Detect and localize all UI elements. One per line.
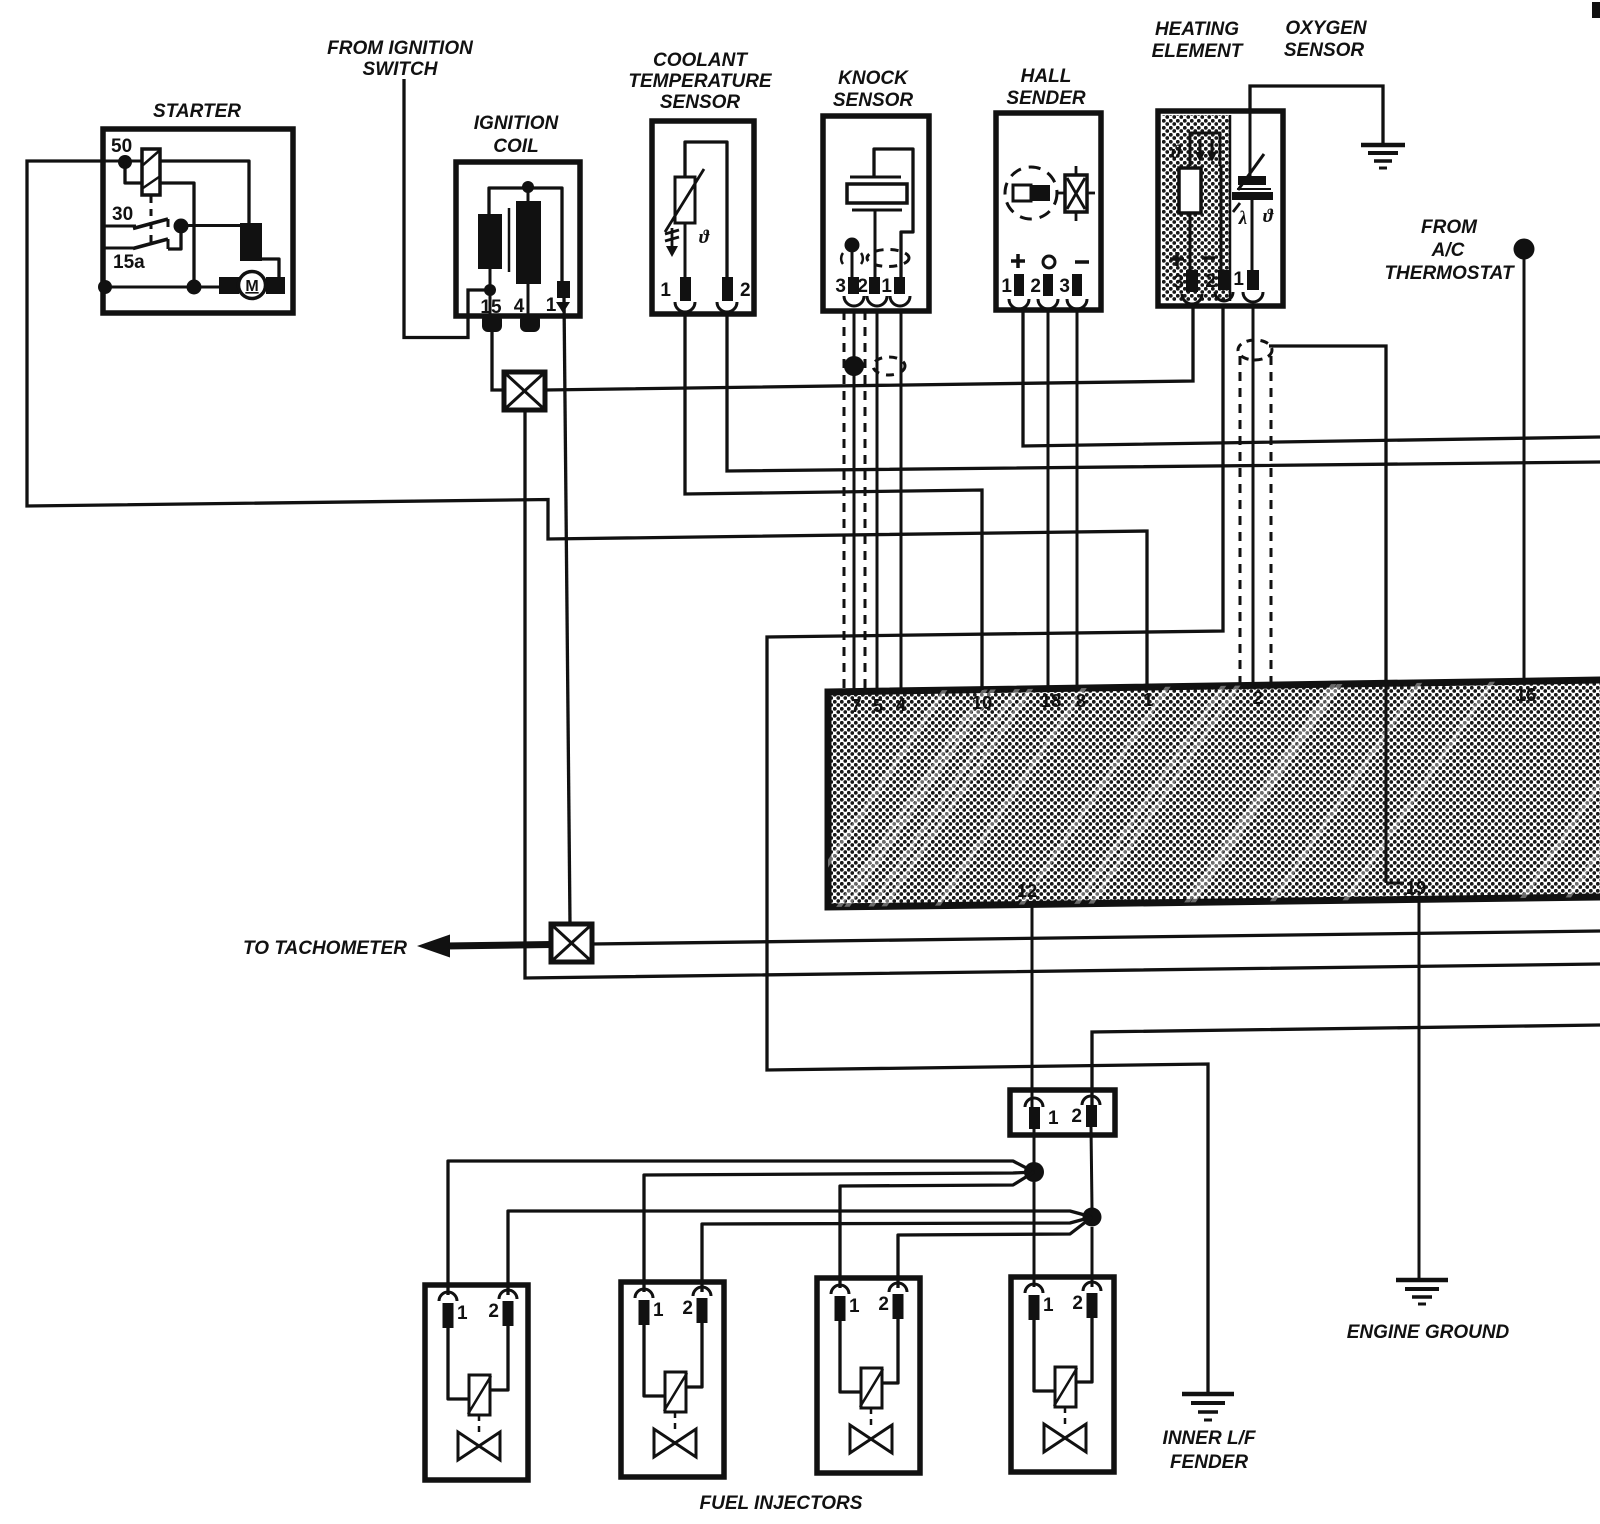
svg-text:2: 2 xyxy=(682,1298,693,1319)
wire: switch node to solenoid block xyxy=(181,224,240,227)
label HEATING ELEMENT xyxy=(1152,19,1244,62)
coil terminal 1 pin xyxy=(556,281,570,313)
wire: coil to solenoid contact xyxy=(160,161,249,223)
svg-text:KNOCK: KNOCK xyxy=(838,68,909,89)
wire: node1 to injector4 pin1 xyxy=(1033,1182,1036,1287)
svg-text:HEATING: HEATING xyxy=(1155,19,1239,40)
svg-text:TEMPERATURE: TEMPERATURE xyxy=(628,71,773,92)
hall vane rectangle xyxy=(1013,185,1050,201)
wire: block to motor xyxy=(262,259,279,277)
wire: hall O to ECU pin 18 xyxy=(1047,310,1050,689)
wire: node1 to injector2 pin1 xyxy=(644,1172,1034,1292)
connector X1 xyxy=(504,372,545,410)
coolant arrow symbol xyxy=(665,228,679,257)
label KNOCK SENSOR xyxy=(833,68,914,111)
svg-text:SWITCH: SWITCH xyxy=(363,59,439,80)
svg-text:ENGINE GROUND: ENGINE GROUND xyxy=(1347,1322,1510,1343)
svg-text:1: 1 xyxy=(1233,269,1244,290)
svg-text:COIL: COIL xyxy=(493,136,538,157)
svg-text:2: 2 xyxy=(1071,1106,1082,1127)
svg-text:8: 8 xyxy=(1076,690,1086,711)
svg-text:4: 4 xyxy=(514,296,525,317)
starter bottom bus xyxy=(104,286,221,289)
page corner mark xyxy=(1592,2,1600,18)
wire: oxygen shield to ECU pin 19 xyxy=(1269,346,1386,684)
fuel injector 3 xyxy=(817,1278,920,1473)
wire: secondary to terminal 4 xyxy=(527,284,530,315)
svg-text:1: 1 xyxy=(849,1296,860,1317)
node injector feed 2 xyxy=(1083,1208,1102,1227)
node from A/C thermostat xyxy=(1514,239,1535,260)
heater polarity + - xyxy=(1170,252,1215,266)
node starter 50 xyxy=(118,155,132,169)
wire: knock 3 to ECU pin 7 xyxy=(853,311,856,692)
knock element top loop xyxy=(874,149,913,277)
svg-text:ELEMENT: ELEMENT xyxy=(1152,41,1244,62)
fuel injector 1 xyxy=(425,1285,528,1480)
svg-text:THERMOSTAT: THERMOSTAT xyxy=(1384,263,1515,284)
coil primary winding xyxy=(478,188,562,281)
svg-text:FROM IGNITION: FROM IGNITION xyxy=(327,38,474,59)
svg-text:18: 18 xyxy=(1041,690,1062,711)
starter box xyxy=(103,129,293,313)
ECU control unit box xyxy=(780,645,1600,935)
svg-text:FUEL INJECTORS: FUEL INJECTORS xyxy=(700,1493,863,1514)
svg-text:FENDER: FENDER xyxy=(1170,1452,1248,1473)
svg-text:1: 1 xyxy=(1143,689,1153,710)
wire: hall - to ECU pin 8 xyxy=(1076,310,1079,688)
hall polarity symbols + O - xyxy=(1011,254,1089,268)
ground oxygen sensor xyxy=(1361,145,1405,168)
svg-text:7: 7 xyxy=(851,695,861,716)
wire: connector 1 to injector nodes xyxy=(1033,1129,1036,1163)
svg-text:50: 50 xyxy=(111,136,132,157)
svg-text:COOLANT: COOLANT xyxy=(653,50,748,71)
svg-text:3: 3 xyxy=(835,276,846,297)
fuel injector 2 xyxy=(621,1282,724,1477)
svg-text:ϑ: ϑ xyxy=(1263,206,1274,227)
wire: node1 to injector3 pin1 xyxy=(840,1172,1034,1288)
wire: node2 to injector3 pin2 xyxy=(898,1217,1092,1288)
wire: X1 to heating element + xyxy=(545,306,1193,390)
svg-text:STARTER: STARTER xyxy=(153,101,241,122)
wire: node2 to injector4 pin2 xyxy=(1091,1227,1094,1287)
svg-text:ϑ: ϑ xyxy=(699,227,710,248)
node starter bottom xyxy=(187,280,202,295)
svg-text:1: 1 xyxy=(457,1303,468,1324)
svg-text:FROM: FROM xyxy=(1421,217,1478,238)
coil secondary winding xyxy=(516,188,541,284)
svg-text:SENSOR: SENSOR xyxy=(1284,40,1365,61)
node knock shield internal xyxy=(845,238,860,253)
node coil 15 xyxy=(484,284,496,296)
injector harness connector xyxy=(1010,1090,1115,1135)
knock shield marker xyxy=(873,357,905,375)
svg-text:2: 2 xyxy=(1072,1293,1083,1314)
svg-text:IGNITION: IGNITION xyxy=(474,113,560,134)
ground inner fender xyxy=(1182,1394,1234,1420)
wire: oxygen sensor body ground xyxy=(1250,86,1383,144)
svg-text:λ: λ xyxy=(1238,208,1247,229)
ignition coil box xyxy=(456,162,580,316)
svg-text:10: 10 xyxy=(972,692,993,713)
label HALL SENDER xyxy=(1006,66,1085,109)
svg-text:12: 12 xyxy=(1017,880,1038,901)
knock pins 3 2 1 xyxy=(835,276,910,306)
svg-text:2: 2 xyxy=(878,1294,889,1315)
svg-text:SENSOR: SENSOR xyxy=(660,92,741,113)
node coil top xyxy=(522,181,534,193)
label OXYGEN SENSOR xyxy=(1284,18,1368,61)
wire: coolant 1 to ECU pin 10 xyxy=(685,314,982,690)
wire plate to pin 2 xyxy=(874,210,877,277)
starter motor M xyxy=(219,272,285,299)
wire: heater - to injectors ground path xyxy=(767,306,1223,1393)
wire loop to pin 2 xyxy=(1220,166,1223,270)
coil core line xyxy=(508,208,511,272)
wire node to pin 3 xyxy=(851,245,854,277)
starter relay coil xyxy=(104,149,160,195)
svg-text:3: 3 xyxy=(1059,276,1070,297)
wire: knock shield dashed b xyxy=(864,311,867,691)
wire: primary to terminal 15 xyxy=(489,269,492,315)
svg-text:15a: 15a xyxy=(113,252,145,273)
wire: coil 15 to connector X1 xyxy=(492,331,504,390)
wire: switch node hook xyxy=(168,226,181,249)
wire: connector 2 down xyxy=(1091,1127,1092,1208)
wire: knock 2 to ECU pin 5 xyxy=(876,311,879,691)
svg-text:5: 5 xyxy=(873,695,883,716)
wire: from ignition switch to coil 15 xyxy=(404,79,492,338)
hall pins 1 2 3 xyxy=(1001,274,1087,309)
svg-text:1: 1 xyxy=(881,276,892,297)
svg-text:ϑ: ϑ xyxy=(1171,142,1182,163)
svg-text:19: 19 xyxy=(1406,877,1427,898)
label FROM A/C THERMOSTAT xyxy=(1384,217,1515,284)
oxygen shield dashed marker xyxy=(1238,340,1272,360)
wire: X2 arrow to tachometer xyxy=(417,935,551,958)
wire: oxygen shield dashed a xyxy=(1239,356,1242,687)
svg-text:OXYGEN: OXYGEN xyxy=(1285,18,1368,39)
svg-text:3: 3 xyxy=(1173,272,1184,293)
ground engine xyxy=(1396,1280,1448,1304)
wire: oxygen shield dashed b xyxy=(1270,356,1273,686)
svg-text:2: 2 xyxy=(740,280,751,301)
coolant sensor box xyxy=(652,121,754,314)
oxygen sensor element xyxy=(1232,111,1273,270)
heater resistor xyxy=(1179,168,1201,213)
svg-text:SENSOR: SENSOR xyxy=(833,90,914,111)
heater pins 3 2 xyxy=(1173,270,1233,304)
ECU pin labels xyxy=(851,684,1536,901)
svg-text:A/C: A/C xyxy=(1431,240,1465,261)
hall IC element xyxy=(1057,166,1095,221)
coolant pins 1 2 xyxy=(660,277,750,312)
wire: node1 to injector1 pin1 xyxy=(448,1161,1034,1295)
svg-text:2: 2 xyxy=(488,1301,499,1322)
fuel injector 4 xyxy=(1011,1277,1114,1472)
knock sensor box xyxy=(823,116,929,311)
svg-text:4: 4 xyxy=(896,694,907,715)
starter switch contact 15a xyxy=(104,239,168,249)
starter switch contact 30 xyxy=(104,219,168,229)
wire: knock shield dashed a xyxy=(843,311,846,692)
svg-text:16: 16 xyxy=(1516,684,1537,705)
knock element plates xyxy=(847,177,907,210)
hall rotor dashed circle xyxy=(1005,167,1057,219)
heater loop with arrows xyxy=(1190,133,1220,166)
wire: coil lower to bottom bus xyxy=(160,183,194,287)
label COOLANT TEMPERATURE SENSOR xyxy=(628,50,773,113)
connector X2 xyxy=(551,924,592,962)
wire: node2 to injector2 pin2 xyxy=(702,1217,1092,1292)
svg-text:HALL: HALL xyxy=(1021,66,1072,87)
coolant thermistor xyxy=(665,142,727,277)
coil stud 15 xyxy=(482,314,502,332)
svg-text:SENDER: SENDER xyxy=(1006,88,1085,109)
wire resistor to pin 3 xyxy=(1189,213,1192,270)
wire thermistor to pin 1 xyxy=(684,223,687,277)
wire: ECU pin 12 to injector connector 1 xyxy=(1031,905,1034,1107)
wire: right edge to injector connector 2 xyxy=(1092,1025,1600,1105)
node injector feed 1 xyxy=(1024,1162,1044,1182)
label INNER L/F FENDER xyxy=(1163,1428,1257,1473)
svg-text:M: M xyxy=(245,278,258,295)
svg-text:30: 30 xyxy=(112,204,133,225)
wire: oxygen sensor 1 to ECU pin 2 xyxy=(1252,306,1255,687)
svg-text:1: 1 xyxy=(653,1300,664,1321)
label FROM IGNITION SWITCH xyxy=(327,38,474,80)
oxygen lambda theta symbols xyxy=(1238,206,1274,229)
svg-text:TO TACHOMETER: TO TACHOMETER xyxy=(243,938,407,959)
wire: X1 down and right (to right edge) xyxy=(525,410,1600,978)
svg-text:1: 1 xyxy=(1048,1108,1059,1129)
svg-text:2: 2 xyxy=(1205,271,1216,292)
starter mechanical link xyxy=(150,196,153,242)
node starter switch xyxy=(174,219,189,234)
wire: hall + right to edge xyxy=(1023,310,1600,446)
svg-text:1: 1 xyxy=(1001,276,1012,297)
svg-text:2: 2 xyxy=(857,276,868,297)
svg-text:1: 1 xyxy=(660,280,671,301)
starter solenoid contact block xyxy=(240,223,262,261)
node knock shield xyxy=(844,356,864,376)
wire: X2 right to edge xyxy=(592,931,1600,944)
hall sender box xyxy=(996,113,1101,310)
wire: node2 to injector1 pin2 xyxy=(508,1211,1092,1295)
wire: A/C thermostat to ECU pin 16 xyxy=(1523,259,1526,681)
oxygen pin 1 xyxy=(1233,269,1263,302)
wire: ECU pin 19 to engine ground xyxy=(1418,900,1421,1278)
wire: starter 50 to ECU pin 1 xyxy=(27,161,1147,688)
node starter bottom left xyxy=(98,280,112,294)
label IGNITION COIL xyxy=(474,113,560,157)
heating element box xyxy=(1158,111,1283,306)
wire: coil 1 to connector X2 xyxy=(564,298,570,924)
svg-text:1: 1 xyxy=(1043,1295,1054,1316)
svg-text:2: 2 xyxy=(1030,276,1041,297)
svg-text:2: 2 xyxy=(1253,687,1263,708)
knock internal shield marker xyxy=(841,250,909,267)
wire: knock 1 to ECU pin 4 xyxy=(900,311,903,691)
coil terminal labels 15 4 1 xyxy=(480,295,556,318)
wire: coolant 2 to right edge xyxy=(727,314,1600,471)
svg-text:1: 1 xyxy=(546,295,557,316)
coil stud 4 xyxy=(520,314,540,332)
svg-text:INNER L/F: INNER L/F xyxy=(1163,1428,1257,1449)
